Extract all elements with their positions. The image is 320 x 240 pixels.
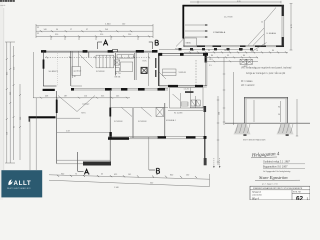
bottom dim chain: [49, 174, 210, 189]
svg-text:M.SKALA.1: M.SKALA.1: [166, 119, 176, 122]
svg-text:80: 80: [272, 50, 274, 52]
svg-text:90: 90: [56, 29, 58, 31]
section line A bottom: [78, 152, 89, 174]
svg-text:390: 390: [10, 92, 12, 95]
ground line: [225, 123, 310, 134]
svg-text:45: 45: [101, 174, 103, 176]
svg-text:1.2.20: 1.2.20: [184, 89, 189, 91]
svg-text:800: 800: [170, 174, 173, 176]
garage interior arrows: [185, 24, 226, 38]
svg-text:1: 1: [307, 197, 309, 200]
living wing bottom wall: [159, 85, 207, 87]
garage dim top: [190, 1, 281, 4]
svg-text:Byggnadslov 5.6. 1967: Byggnadslov 5.6. 1967: [263, 165, 288, 168]
svg-text:SOVRUM: SOVRUM: [138, 121, 147, 123]
svg-text:110: 110: [84, 96, 87, 98]
svg-text:80: 80: [211, 55, 213, 57]
main top wall: [41, 50, 158, 53]
svg-text:325: 325: [101, 96, 104, 98]
garage closet GARD: [176, 38, 197, 47]
notes text: [241, 67, 292, 87]
meter boxes: [240, 59, 252, 68]
svg-text:garderob: garderob: [74, 70, 82, 73]
approval lines: [263, 161, 305, 173]
extension verticals bottom: [30, 98, 36, 170]
bottom-center wing corridor: [111, 108, 168, 117]
fence posts chain: [159, 43, 267, 52]
svg-text:M = mätare: M = mätare: [241, 80, 253, 83]
lower-left wing left wall: [56, 91, 58, 164]
svg-text:340: 340: [150, 183, 153, 185]
mid wall segments: [149, 53, 167, 86]
svg-text:208: 208: [20, 117, 22, 120]
signature: [255, 175, 300, 181]
garage dim right: [290, 4, 294, 50]
svg-text:80: 80: [88, 174, 90, 176]
title block: [250, 184, 310, 203]
interior dim line y97: [33, 96, 130, 99]
svg-text:RITN. NR: RITN. NR: [293, 192, 301, 194]
section line B top: [149, 40, 159, 49]
svg-text:310: 310: [13, 67, 15, 70]
bedroom labels: [114, 121, 147, 123]
svg-text:ww.tb: ww.tb: [0, 4, 6, 7]
closet with X: [156, 103, 165, 138]
svg-text:TM S: TM S: [81, 112, 86, 114]
svg-text:2.08: 2.08: [66, 131, 70, 133]
section posts: [243, 97, 288, 135]
svg-text:900: 900: [61, 174, 64, 176]
stairs: [80, 52, 114, 73]
svg-text:U.SKALA: U.SKALA: [267, 32, 277, 35]
svg-text:g.k. f. byggn.n. 2 bil.: g.k. f. byggn.n. 2 bil.: [262, 184, 279, 186]
svg-text:80: 80: [208, 50, 210, 52]
svg-text:250: 250: [128, 34, 131, 36]
svg-text:17: 17: [70, 29, 72, 31]
living wing wardrobe: [163, 69, 177, 76]
utility rooms below living wing: [166, 88, 203, 123]
svg-text:övriga av murtegel m. puts l: övriga av murtegel m. puts l vån av plk: [246, 72, 286, 75]
svg-text:Godkänd enligt 2.1. 1967: Godkänd enligt 2.1. 1967: [263, 161, 290, 164]
svg-text:90: 90: [156, 174, 158, 176]
svg-text:SNITT GENOM TRÄDG.MUR: SNITT GENOM TRÄDG.MUR: [243, 138, 266, 141]
svg-text:118: 118: [7, 132, 9, 135]
svg-text:18: 18: [256, 50, 258, 52]
svg-text:35: 35: [37, 33, 39, 35]
svg-text:140: 140: [122, 23, 125, 25]
svg-text:21,2 KVM: 21,2 KVM: [224, 17, 233, 19]
svg-text:ST.ARMALA: ST.ARMALA: [213, 31, 226, 34]
svg-text:LR = varmrör: LR = varmrör: [241, 84, 255, 87]
svg-text:18: 18: [192, 50, 194, 52]
svg-text:187: 187: [64, 96, 67, 98]
logo: [1, 170, 42, 197]
svg-text:SOVRUM: SOVRUM: [114, 121, 123, 123]
svg-text:FASTIGHETSMÄKLERI: FASTIGHETSMÄKLERI: [7, 187, 31, 190]
kitchen: [117, 53, 147, 80]
svg-text:1.340: 1.340: [114, 187, 119, 189]
svg-text:1.340: 1.340: [105, 23, 111, 25]
porch wall: [29, 116, 80, 121]
left dimension chain: [5, 42, 34, 163]
top dimension chain: [36, 23, 153, 40]
svg-text:408: 408: [45, 96, 48, 98]
bedroom left wall: [43, 51, 57, 86]
svg-text:12: 12: [261, 22, 263, 24]
svg-text:140: 140: [44, 29, 47, 31]
lower-left wing right wall: [109, 91, 111, 164]
svg-text:GARD: GARD: [186, 42, 192, 45]
svg-text:130: 130: [186, 175, 189, 177]
living wing top wall: [158, 49, 208, 86]
svg-text:4.70: 4.70: [291, 24, 293, 28]
svg-text:BR KB: BR KB: [115, 77, 121, 79]
garage interior partition: [224, 8, 276, 47]
dim line right of terrace: [223, 57, 234, 125]
svg-text:80: 80: [243, 55, 245, 57]
bottom-center divider: [132, 108, 134, 138]
garage dim bottom chain: [184, 50, 288, 53]
section drawing beam: [244, 97, 288, 98]
svg-text:625: 625: [114, 174, 117, 176]
garage bottom wall windows: [183, 46, 284, 47]
svg-text:V.RD.R: V.RD.R: [179, 72, 187, 74]
main bottom wall with openings: [71, 88, 168, 91]
svg-text:9.5: 9.5: [209, 65, 212, 67]
section dims: [254, 100, 282, 122]
svg-text:95: 95: [13, 126, 15, 128]
svg-text:310: 310: [100, 34, 103, 36]
garage outer walls: [183, 5, 285, 47]
garden wall right: [190, 106, 207, 165]
svg-text:18: 18: [224, 50, 226, 52]
scan edge left: [0, 0, 3, 200]
svg-text:Sture Egnström: Sture Egnström: [259, 175, 288, 180]
dim right of section: [296, 99, 298, 136]
svg-text:95: 95: [227, 55, 229, 57]
svg-text:f.d. byggnadsl. för fastighets: f.d. byggnadsl. för fastighetsäg.: [263, 170, 291, 173]
svg-text:Nybyggnad: Nybyggnad: [252, 192, 261, 194]
svg-text:141: 141: [128, 174, 131, 176]
handwritten address: [251, 152, 280, 159]
svg-text:ALLT: ALLT: [14, 180, 32, 187]
bedroom interior: [45, 51, 150, 86]
bathroom: [114, 53, 121, 79]
section line A top: [98, 40, 108, 49]
svg-text:62: 62: [296, 196, 304, 200]
svg-text:245: 245: [116, 96, 119, 98]
svg-text:75: 75: [75, 174, 77, 176]
fireplace: [141, 67, 148, 74]
svg-text:35: 35: [37, 27, 39, 29]
dashed arrows right: [213, 158, 220, 168]
lower-left wing interior: [57, 96, 110, 133]
svg-text:IM.TVL: IM.TVL: [115, 73, 121, 75]
svg-text:9.95: 9.95: [237, 1, 241, 3]
bedroom bottom wall thick: [43, 89, 55, 91]
right-middle dim chain: [205, 55, 258, 62]
svg-text:SOVRUM: SOVRUM: [96, 71, 105, 73]
svg-text:940: 940: [175, 49, 178, 51]
svg-text:425: 425: [7, 72, 9, 75]
svg-text:80: 80: [240, 50, 242, 52]
svg-text:364: 364: [218, 112, 220, 115]
window box on top wall: [113, 49, 118, 51]
svg-text:vardagsr: vardagsr: [82, 103, 90, 106]
section line B bottom: [149, 137, 160, 173]
svg-text:310: 310: [55, 34, 58, 36]
svg-text:97: 97: [86, 29, 88, 31]
bottom wall center wing: [108, 136, 206, 140]
lower-left wing bottom: [57, 160, 111, 165]
corner stamp: [0, 0, 15, 7]
svg-text:F.BETN: F.BETN: [296, 188, 303, 190]
svg-text:STADSBYGGNADSKONTORET I STOCKH: STADSBYGGNADSKONTORET I STOCKHOLM: [253, 187, 297, 190]
svg-text:90: 90: [278, 107, 280, 109]
hall partition: [71, 51, 82, 86]
svg-text:Hlg 4: Hlg 4: [251, 196, 259, 200]
dim line x218: [217, 96, 221, 165]
svg-text:92 114 88: 92 114 88: [174, 113, 182, 115]
svg-text:50: 50: [278, 114, 280, 116]
svg-text:VM. mellanvägg av regelverk me: VM. mellanvägg av regelverk med panel, i…: [241, 67, 292, 70]
living wing right wall: [205, 53, 214, 86]
